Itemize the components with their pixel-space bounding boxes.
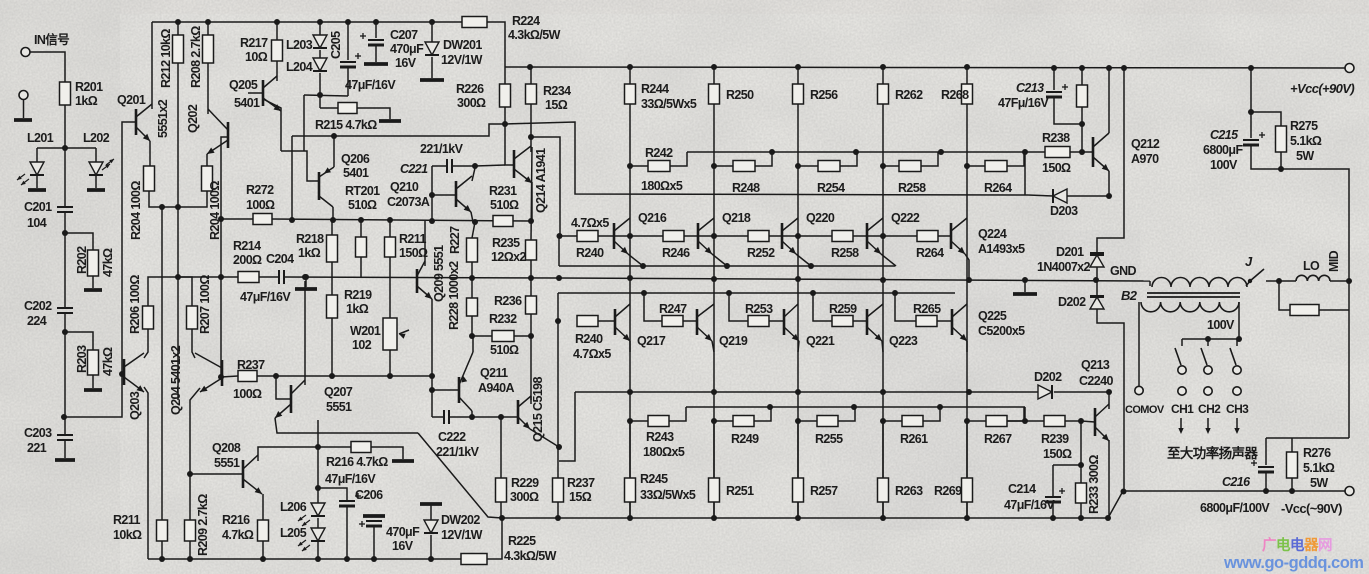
svg-text:5.1kΩ: 5.1kΩ xyxy=(1290,134,1322,148)
svg-text:C204: C204 xyxy=(266,252,294,266)
svg-text:224: 224 xyxy=(27,314,47,328)
wire damp left xyxy=(1279,281,1290,310)
svg-text:5W: 5W xyxy=(1296,149,1314,163)
resistor R216a xyxy=(351,442,371,453)
junction R242 left xyxy=(627,163,633,169)
wire L0 east xyxy=(1330,280,1349,282)
scan shading mid xyxy=(820,230,1140,530)
junction Q214 collector tap xyxy=(528,134,534,140)
resistor R229 xyxy=(496,478,507,502)
wire Q206 base jog xyxy=(281,151,319,181)
wire Q217 emitter join xyxy=(629,341,631,352)
ground R203 xyxy=(84,388,102,392)
capacitor C202 xyxy=(57,307,73,309)
svg-text:R212 10kΩ: R212 10kΩ xyxy=(159,29,173,88)
wire LED bus xyxy=(37,147,96,149)
terminal aux xyxy=(19,91,28,100)
svg-text:Q208: Q208 xyxy=(212,441,241,455)
resistor R232 xyxy=(492,331,514,342)
svg-text:D203: D203 xyxy=(1050,204,1078,218)
wire L204 down xyxy=(319,73,321,108)
wire R215 left xyxy=(320,107,338,109)
svg-text:16V: 16V xyxy=(395,56,417,70)
wire Q215 emitter diag xyxy=(530,429,559,447)
junction R258 left xyxy=(880,163,886,169)
wire D202v stem xyxy=(1096,281,1098,296)
junction 559 y321 xyxy=(555,318,561,324)
svg-text:COMOV: COMOV xyxy=(1125,404,1165,416)
svg-text:R234: R234 xyxy=(543,84,571,98)
wire R229 down xyxy=(500,502,502,518)
wire col883 top xyxy=(882,67,884,84)
capacitor C207 xyxy=(368,39,384,41)
svg-text:15Ω: 15Ω xyxy=(545,98,568,112)
wire R269 down xyxy=(966,502,968,518)
capacitor C216 xyxy=(1258,466,1274,468)
switch blade CH2 xyxy=(1201,348,1207,365)
wire Q213 collector xyxy=(1108,392,1110,409)
resistor R264 row2 xyxy=(985,161,1007,172)
wire Q203 base stub xyxy=(122,373,124,375)
wire R232 left xyxy=(472,335,492,337)
wire C205 down xyxy=(347,67,349,96)
svg-text:R268: R268 xyxy=(941,88,969,102)
wire C207 top xyxy=(375,22,377,38)
svg-text:15Ω: 15Ω xyxy=(569,490,592,504)
svg-text:L204: L204 xyxy=(286,60,313,74)
svg-text:5551: 5551 xyxy=(214,456,240,470)
wire C206 down xyxy=(346,506,348,559)
wire C216 stem xyxy=(1265,438,1267,465)
svg-text:6800μF: 6800μF xyxy=(1203,143,1243,157)
resistor R246 base xyxy=(663,231,684,242)
svg-text:100V: 100V xyxy=(1210,158,1238,172)
wire R211b down xyxy=(389,257,391,277)
resistor R234 xyxy=(526,84,537,104)
resistor R231 xyxy=(493,216,513,227)
svg-text:4.3kΩ/5W: 4.3kΩ/5W xyxy=(504,549,557,563)
svg-text:R261: R261 xyxy=(900,432,928,446)
wire Q205 collector to R217 xyxy=(276,61,278,81)
contact upper CH2 xyxy=(1204,366,1212,374)
svg-text:Q220: Q220 xyxy=(806,211,835,225)
wire 559 drop xyxy=(558,236,560,266)
svg-text:R214: R214 xyxy=(233,239,261,253)
svg-text:Q222: Q222 xyxy=(891,211,920,225)
wire col798 top xyxy=(797,67,799,84)
wire L203-L204 xyxy=(319,50,321,58)
svg-text:D202: D202 xyxy=(1034,370,1062,384)
transistor Q218 xyxy=(697,223,700,249)
wire Q208 emitter xyxy=(262,494,264,520)
wire C215 stem xyxy=(1250,112,1252,138)
L205 arrows xyxy=(298,540,306,546)
svg-text:R215 4.7kΩ: R215 4.7kΩ xyxy=(315,118,377,132)
wire col714 top xyxy=(713,67,715,84)
wire R234 top xyxy=(530,67,532,84)
contact lower CH3 xyxy=(1233,387,1241,395)
resistor R240 base xyxy=(577,231,598,242)
junction R264 left xyxy=(964,163,970,169)
junction out-q213 xyxy=(1106,389,1112,395)
input terminal J-in xyxy=(21,48,30,57)
transistor Q204 xyxy=(221,360,224,386)
wire diagonal to bus xyxy=(418,433,502,518)
wire R212 top xyxy=(177,22,179,35)
svg-text:R276: R276 xyxy=(1303,446,1331,460)
resistor R204 left xyxy=(144,166,155,191)
junction R261 left xyxy=(880,418,886,424)
resistor R256 xyxy=(793,84,804,104)
wire R247 to base xyxy=(683,320,697,322)
transistor Q205 xyxy=(262,80,265,106)
svg-text:R225: R225 xyxy=(508,534,536,548)
svg-text:47Fμ/16V: 47Fμ/16V xyxy=(998,96,1049,110)
wire R216a right xyxy=(371,447,403,459)
wire collector tap to base row xyxy=(531,137,560,236)
wire r243 bus xyxy=(686,406,1025,408)
resistor R262 xyxy=(878,84,889,104)
junction R240 left node xyxy=(557,233,563,239)
wire C221 right xyxy=(452,165,475,167)
wire R251 down xyxy=(713,502,715,518)
svg-text:47μF/16V: 47μF/16V xyxy=(325,472,376,486)
resistor R245 xyxy=(625,478,636,502)
wire contact stub CH3 xyxy=(1236,339,1238,346)
svg-text:6800μF/100V: 6800μF/100V xyxy=(1200,501,1270,515)
wire bottom-left rail xyxy=(148,558,461,560)
wire mid rail y376 xyxy=(257,375,432,377)
wire R237b left xyxy=(221,376,238,377)
svg-text:10Ω: 10Ω xyxy=(245,50,268,64)
svg-text:Q206: Q206 xyxy=(341,152,370,166)
svg-text:R252: R252 xyxy=(747,246,775,260)
svg-text:C2073A: C2073A xyxy=(387,195,430,209)
wire emitter bus top xyxy=(559,265,895,267)
wire to R202 xyxy=(65,233,93,250)
svg-text:D201: D201 xyxy=(1056,245,1084,259)
junction -Vcc corner xyxy=(1121,489,1127,495)
svg-text:R229: R229 xyxy=(511,476,539,490)
svg-text:R240: R240 xyxy=(575,332,603,346)
junctions output rail xyxy=(627,389,633,395)
svg-text:www.go-gddq.com: www.go-gddq.com xyxy=(1223,554,1363,572)
resistor R219 xyxy=(327,295,338,318)
svg-text:Q211: Q211 xyxy=(480,366,508,380)
wire DW202 stem xyxy=(430,504,432,520)
resistor R275 xyxy=(1276,126,1287,152)
wire Q202 base drop xyxy=(221,137,228,377)
svg-text:C213: C213 xyxy=(1016,81,1044,95)
svg-text:R257: R257 xyxy=(810,484,838,498)
svg-text:R264: R264 xyxy=(984,181,1012,195)
capacitor C204 xyxy=(278,270,280,284)
bar D202v xyxy=(1090,295,1104,297)
svg-text:100V: 100V xyxy=(1207,318,1235,332)
wire bias rail y220 xyxy=(221,218,253,220)
transistor Q203 xyxy=(123,359,126,385)
svg-text:47kΩ: 47kΩ xyxy=(101,347,115,376)
wire col630 body xyxy=(629,104,631,518)
svg-text:R249: R249 xyxy=(731,432,759,446)
wire R255 seg xyxy=(798,420,817,422)
wire Q203 emitter xyxy=(144,387,148,559)
transistor Q212 xyxy=(1092,137,1095,167)
svg-text:R228 1000x2: R228 1000x2 xyxy=(447,261,461,330)
wire Q211 collector down xyxy=(471,411,473,417)
transistor Q225 xyxy=(951,309,954,335)
wire R245 down xyxy=(629,502,631,518)
contact upper CH3 xyxy=(1233,366,1241,374)
svg-text:R204 100Ω: R204 100Ω xyxy=(129,181,143,240)
svg-text:R256: R256 xyxy=(810,88,838,102)
svg-text:广电电器网: 广电电器网 xyxy=(1262,536,1332,554)
resistor R264 base xyxy=(917,231,938,242)
resistor R267 xyxy=(986,416,1007,427)
svg-text:R251: R251 xyxy=(726,484,754,498)
transistor Q208 xyxy=(242,460,245,488)
wire col531 b xyxy=(530,260,532,278)
diode L203 xyxy=(313,35,327,48)
junction R243 left xyxy=(627,418,633,424)
junction R254 left xyxy=(795,163,801,169)
wire Q210 emitter xyxy=(471,212,473,222)
contact J xyxy=(1248,279,1252,283)
potentiometer W201 xyxy=(383,318,397,350)
wire mid column xyxy=(1281,169,1349,438)
svg-text:R242: R242 xyxy=(645,146,673,160)
svg-text:R255: R255 xyxy=(815,432,843,446)
resistor R236 xyxy=(526,296,537,314)
L206 arrows xyxy=(298,515,306,521)
svg-text:R248: R248 xyxy=(732,181,760,195)
diode D202 h xyxy=(1038,385,1052,399)
junction D203-emitter xyxy=(1106,193,1112,199)
wire Q211 emitter up xyxy=(472,336,474,352)
junction MID xyxy=(1346,278,1352,284)
wire W201 down xyxy=(389,350,391,376)
wire Q204 emitter xyxy=(190,388,200,520)
svg-text:GND: GND xyxy=(1110,264,1137,278)
wire 470uF down xyxy=(373,526,375,559)
wire R265 drop xyxy=(895,293,916,321)
svg-text:Q203: Q203 xyxy=(128,391,142,420)
wire B2 to J xyxy=(1246,281,1250,286)
wire R258 jog xyxy=(921,152,938,166)
wire Q207 base feed xyxy=(276,376,291,399)
svg-text:510Ω: 510Ω xyxy=(348,198,377,212)
wire after D202 xyxy=(1054,391,1109,393)
wire R212 down to nfb node xyxy=(177,63,179,277)
wire R238 to Q212 xyxy=(1070,151,1093,153)
wire Q211 base link xyxy=(432,389,450,391)
wire Q218 emitter xyxy=(712,254,727,266)
svg-text:R240: R240 xyxy=(576,246,604,260)
junction x318 xyxy=(315,444,321,450)
switch blade CH3 xyxy=(1230,348,1236,365)
wire R233 top xyxy=(1080,421,1082,483)
wire nfb to R207 xyxy=(178,277,192,306)
wire Q219 emitter join xyxy=(712,341,714,352)
svg-text:5551x2: 5551x2 xyxy=(156,99,170,138)
wire R275 down xyxy=(1280,152,1282,169)
svg-text:R238: R238 xyxy=(1042,131,1070,145)
L202 emit arrows xyxy=(102,164,110,170)
svg-text:R246: R246 xyxy=(662,246,690,260)
svg-text:R245: R245 xyxy=(640,472,668,486)
wire Q208 base xyxy=(190,473,243,475)
junctions rail A xyxy=(469,275,475,281)
resistor R249 xyxy=(733,416,754,427)
wire R218 down xyxy=(331,262,333,277)
junction Q208 base tap xyxy=(187,471,193,477)
wire C213 stem xyxy=(1053,68,1055,90)
svg-text:MID: MID xyxy=(1327,250,1341,272)
wire J to L0 xyxy=(1266,280,1296,282)
wire R243 seg xyxy=(630,420,648,422)
svg-text:Q201: Q201 xyxy=(117,93,146,107)
L201 emit arrows xyxy=(17,174,25,180)
svg-text:C5200x5: C5200x5 xyxy=(978,324,1025,338)
capacitor C222 xyxy=(443,410,445,424)
wire R251 link xyxy=(713,421,715,478)
wire chain top xyxy=(64,148,66,207)
transistor Q201 xyxy=(135,109,138,135)
resistor R207 xyxy=(187,306,198,329)
wire y96 drop to base line xyxy=(303,95,305,151)
svg-text:5W: 5W xyxy=(1310,476,1328,490)
resistor R252 base xyxy=(748,231,769,242)
svg-text:221: 221 xyxy=(27,441,47,455)
svg-text:100Ω: 100Ω xyxy=(246,198,275,212)
svg-text:Q213: Q213 xyxy=(1081,358,1110,372)
wire Q216 emitter xyxy=(628,254,643,266)
node R203 tap xyxy=(62,329,68,335)
svg-text:C206: C206 xyxy=(355,488,383,502)
svg-text:1kΩ: 1kΩ xyxy=(346,302,369,316)
capacitor C221 xyxy=(446,159,448,173)
svg-text:300Ω: 300Ω xyxy=(510,490,539,504)
svg-text:Q225: Q225 xyxy=(978,309,1007,323)
svg-text:C203: C203 xyxy=(24,426,52,440)
svg-text:5401: 5401 xyxy=(343,166,369,180)
wire C214 down xyxy=(1052,502,1054,518)
wire C205 top xyxy=(347,22,349,60)
svg-text:Q205: Q205 xyxy=(229,78,258,92)
svg-text:DW202: DW202 xyxy=(441,513,480,527)
svg-text:+Vcc(+90V): +Vcc(+90V) xyxy=(1290,81,1354,96)
resistor R215 xyxy=(338,103,357,114)
junction C215 top xyxy=(1248,109,1254,115)
svg-text:R253: R253 xyxy=(745,302,773,316)
wire R211a down xyxy=(161,541,163,559)
wire Q206 emitter up xyxy=(333,137,335,167)
resistor R238 xyxy=(1045,147,1070,158)
ground C207 xyxy=(364,62,388,66)
node input base xyxy=(62,145,68,151)
junctions r243 bus xyxy=(767,404,773,410)
svg-text:A970: A970 xyxy=(1131,152,1159,166)
junction Q213 base xyxy=(1078,418,1084,424)
svg-text:R254: R254 xyxy=(817,181,845,195)
wire R226 top xyxy=(504,67,506,84)
svg-text:R247: R247 xyxy=(659,302,687,316)
junctions top-left rail xyxy=(175,19,181,25)
junctions rail B xyxy=(641,290,647,296)
resistor R237c xyxy=(553,478,564,502)
LED L206 xyxy=(311,503,325,516)
svg-text:R262: R262 xyxy=(895,88,923,102)
wire gnd stub2 xyxy=(1024,280,1026,292)
svg-text:R219: R219 xyxy=(344,288,372,302)
transistor Q220 xyxy=(781,223,784,249)
svg-text:Q216: Q216 xyxy=(638,211,667,225)
wire col714 body xyxy=(713,104,715,518)
resistor R235 xyxy=(526,240,537,260)
wire RT201 top xyxy=(360,220,362,237)
svg-text:C2240: C2240 xyxy=(1079,374,1113,388)
wire R261 jog xyxy=(923,407,940,421)
scan blotch texture xyxy=(0,0,1,1)
svg-text:Q212: Q212 xyxy=(1131,137,1160,151)
svg-text:R211: R211 xyxy=(113,513,140,527)
svg-text:180Ωx5: 180Ωx5 xyxy=(641,179,683,193)
wire damp right xyxy=(1319,309,1349,311)
wire x318 stub xyxy=(317,420,319,447)
svg-text:Q221: Q221 xyxy=(806,334,835,348)
wire R247 drop xyxy=(644,293,662,321)
svg-text:150Ω: 150Ω xyxy=(1043,447,1072,461)
wire R264 jog xyxy=(1007,152,1024,166)
junction bias-R226 xyxy=(502,121,508,127)
transistor Q209 xyxy=(416,269,419,293)
resistor R247 low xyxy=(662,316,683,327)
wire Q224 emitter xyxy=(965,254,969,278)
wire nfb node down xyxy=(177,277,179,400)
wire R234 down xyxy=(530,104,532,152)
ground L201 xyxy=(28,188,46,192)
svg-text:1kΩ: 1kΩ xyxy=(75,94,98,108)
wire R224 to main rail xyxy=(487,22,505,67)
wire R258 seg xyxy=(883,165,899,167)
wire R216a left xyxy=(318,446,351,448)
resistor R209 xyxy=(185,520,196,541)
wire Q207 collector xyxy=(304,281,306,385)
wire sec left to COMOV xyxy=(1138,302,1140,386)
ground R215 xyxy=(379,119,401,123)
wire -Vcc rail xyxy=(1123,490,1345,492)
junction C221-Q214base xyxy=(472,163,478,169)
resistor R204 right xyxy=(202,166,213,191)
svg-text:R201: R201 xyxy=(75,80,103,94)
resistor R272 xyxy=(253,214,272,225)
contact lower CH1 xyxy=(1178,387,1186,395)
wire Q201 collector xyxy=(151,22,153,109)
resistor R255 xyxy=(817,416,838,427)
ground input xyxy=(14,118,32,122)
junction R249 left xyxy=(711,418,717,424)
svg-text:Q215 C5198: Q215 C5198 xyxy=(531,376,545,442)
transistor Q219 xyxy=(696,309,699,335)
wire R215 to ground xyxy=(357,108,390,119)
junctions bottom bus xyxy=(499,515,505,521)
svg-text:R204 100Ω: R204 100Ω xyxy=(208,181,222,240)
svg-text:R244: R244 xyxy=(641,82,669,96)
resistor R251 xyxy=(709,478,720,502)
wire Q210 collector xyxy=(472,168,475,181)
wire R229 top xyxy=(500,417,502,478)
svg-text:L205: L205 xyxy=(280,526,307,540)
